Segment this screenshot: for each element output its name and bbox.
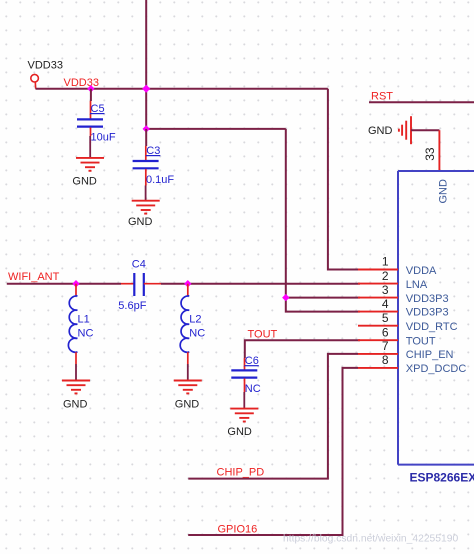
svg-text:5.6pF: 5.6pF (118, 300, 146, 312)
wire RST (369, 101, 474, 103)
svg-text:NC: NC (189, 327, 205, 339)
svg-text:0.1uF: 0.1uF (146, 174, 174, 186)
svg-text:VDD3P3: VDD3P3 (406, 293, 449, 305)
svg-text:6: 6 (382, 325, 389, 339)
svg-text:TOUT: TOUT (248, 328, 278, 340)
svg-text:7: 7 (382, 339, 389, 353)
svg-text:GND: GND (63, 398, 88, 410)
svg-text:VDD3P3: VDD3P3 (406, 307, 449, 319)
wire C3 branch vertical to pins 3 and 4 (286, 129, 360, 312)
svg-text:33: 33 (423, 147, 437, 161)
svg-text:GND: GND (128, 216, 153, 228)
junction C3 branch (143, 125, 150, 132)
ground GND below C5 (72, 158, 104, 187)
svg-text:WIFI_ANT: WIFI_ANT (8, 271, 60, 283)
wire TOUT to pin 6 (245, 340, 360, 358)
junction pin3/pin4 branch (282, 294, 289, 301)
svg-text:GND: GND (227, 426, 252, 438)
port VDD33 (28, 60, 63, 89)
svg-text:3: 3 (382, 283, 389, 297)
junction VDD33/C5 (87, 85, 94, 92)
svg-text:GND: GND (368, 125, 393, 137)
svg-text:NC: NC (78, 327, 94, 339)
wire C3 branch horizontal (146, 128, 286, 130)
wire top vertical into VDD33 net (145, 0, 147, 129)
svg-text:L1: L1 (78, 313, 90, 325)
svg-text:CHIP_PD: CHIP_PD (217, 467, 265, 479)
svg-text:L2: L2 (189, 313, 201, 325)
junction VDD33/top wire (142, 85, 150, 93)
wire ground to pin 33 (411, 129, 439, 131)
pin 8 XPD_DCDC (358, 353, 466, 375)
svg-text:LNA: LNA (406, 279, 428, 291)
ground GND below C3 (128, 201, 160, 228)
svg-text:XPD_DCDC: XPD_DCDC (406, 363, 467, 375)
svg-text:5: 5 (382, 311, 389, 325)
svg-text:GND: GND (72, 175, 97, 187)
pin 1 VDDA (358, 255, 437, 277)
pin 3 VDD3P3 (358, 283, 449, 305)
ground GND rotated at pin 33 (368, 116, 411, 144)
svg-text:1: 1 (382, 255, 389, 269)
svg-text:CHIP_EN: CHIP_EN (406, 349, 454, 361)
ground GND below L1 (62, 381, 90, 411)
junction WIFI_ANT/L1 (72, 280, 79, 287)
svg-text:8: 8 (382, 353, 389, 367)
pin 4 VDD3P3 (358, 297, 449, 319)
inductor L1 (68, 284, 93, 381)
pin 2 LNA (358, 269, 428, 291)
capacitor C6 (231, 355, 260, 408)
svg-text:GND: GND (175, 398, 200, 410)
svg-text:GPIO16: GPIO16 (218, 523, 258, 535)
wire WIFI_ANT horizontal to C4 (7, 283, 121, 285)
wire VDD33 down to pin 1 (328, 89, 360, 270)
pin 5 VDD_RTC (358, 311, 458, 333)
svg-text:TOUT: TOUT (406, 336, 436, 348)
svg-text:VDD33: VDD33 (64, 77, 99, 89)
svg-text:C4: C4 (132, 259, 146, 271)
svg-text:ESP8266EX: ESP8266EX (410, 471, 474, 485)
pin 7 CHIP_EN (358, 339, 454, 361)
svg-text:GND: GND (438, 179, 450, 204)
svg-text:VDDA: VDDA (406, 265, 437, 277)
svg-text:https://blog.csdn.net/weixin_4: https://blog.csdn.net/weixin_42255190 (283, 534, 458, 545)
svg-text:VDD_RTC: VDD_RTC (406, 321, 458, 333)
svg-text:VDD33: VDD33 (28, 60, 63, 72)
ground GND below C6 (227, 409, 258, 439)
capacitor C4 (118, 259, 161, 312)
wire C4 to L2 junction then to pin 2 (161, 283, 360, 285)
IC U1 ESP8266EX box (398, 171, 474, 485)
wire to pin 3 (286, 297, 360, 299)
pin 6 TOUT (358, 325, 436, 347)
capacitor C5 (77, 89, 116, 158)
capacitor C3 (133, 129, 175, 201)
svg-text:RST: RST (371, 91, 393, 103)
pin 33 GND (423, 130, 450, 203)
wire pin 7 to CHIP_PD (188, 354, 358, 479)
inductor L2 (180, 284, 205, 381)
svg-text:4: 4 (382, 297, 389, 311)
ground GND below L2 (174, 381, 202, 411)
svg-text:2: 2 (382, 269, 389, 283)
wire VDD33 horizontal (36, 88, 328, 90)
wire pin 8 to GPIO16 (188, 368, 358, 535)
svg-text:10uF: 10uF (91, 132, 116, 144)
junction C4/L2 (184, 280, 191, 287)
svg-text:NC: NC (245, 383, 261, 395)
